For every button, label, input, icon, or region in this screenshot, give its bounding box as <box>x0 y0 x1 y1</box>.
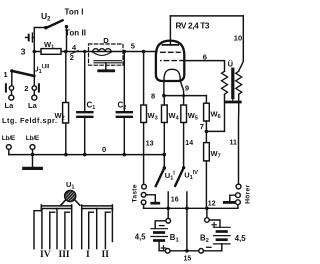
transformer core <box>226 69 241 102</box>
battery B1 plus terminal <box>159 241 170 254</box>
svg-text:8: 8 <box>151 92 155 101</box>
wire: C2 branch upper <box>123 52 125 112</box>
coil block right bar <box>82 205 113 211</box>
terminal La right <box>28 90 38 110</box>
node 15 <box>184 249 192 263</box>
battery B2 plates <box>214 227 231 244</box>
svg-text:12: 12 <box>208 201 216 208</box>
transformer U secondary winding <box>236 71 242 94</box>
coil block left bar <box>41 205 71 211</box>
node 4/2 <box>64 43 78 62</box>
tube grid 1 (dashed) <box>161 51 180 53</box>
node C1/bus <box>83 153 87 157</box>
wire: main grid line node3 to tube <box>34 51 157 53</box>
svg-text:Ü: Ü <box>228 60 233 69</box>
node bus/15 <box>185 207 189 211</box>
svg-text:IV: IV <box>40 250 51 260</box>
resistor W5 <box>181 105 198 123</box>
svg-text:I: I <box>86 250 90 260</box>
wire: contact 16 down to bus and battery B1 minus <box>168 192 178 219</box>
wire: primary bottom to node 7 <box>206 94 224 131</box>
resistor W2 <box>55 103 69 124</box>
tube RV 2,4 T3 envelope <box>156 41 184 81</box>
svg-text:Ltg. Feldf.spr.: Ltg. Feldf.spr. <box>2 116 57 125</box>
node W2/bus <box>64 153 68 157</box>
svg-text:Lb/E: Lb/E <box>26 135 40 142</box>
node 12 <box>205 201 216 211</box>
svg-text:2: 2 <box>24 84 28 93</box>
svg-text:16: 16 <box>171 196 179 203</box>
zero bus 0 <box>9 154 165 156</box>
switch U1-IV <box>175 166 185 186</box>
svg-text:RV 2,4 T3: RV 2,4 T3 <box>176 20 210 30</box>
wire: W5 down to switch U1-IV pivot, terminal 14 <box>184 123 194 168</box>
switch U1-I <box>156 166 166 186</box>
svg-text:11: 11 <box>230 139 238 146</box>
svg-text:Ton I: Ton I <box>65 8 84 17</box>
jack contact 1 <box>6 71 14 92</box>
svg-text:13: 13 <box>146 141 154 148</box>
tube lead 9 to W5 <box>180 81 189 96</box>
jack contact 2 <box>24 76 39 93</box>
Taste jack contact bottom <box>141 200 146 208</box>
wire: C1 down to zero bus <box>84 118 86 155</box>
wire: C1 branch upper <box>84 52 86 112</box>
coil tap wires section III <box>57 209 72 249</box>
capacitor C1 <box>77 101 95 117</box>
resistor W7 <box>204 131 221 161</box>
coil tap wires section II <box>105 209 112 249</box>
capacitor C2 <box>117 101 132 117</box>
node 3 <box>33 50 37 54</box>
svg-text:10: 10 <box>234 34 242 43</box>
coil tap wires section IV <box>34 209 55 249</box>
resistor W6 <box>204 96 221 121</box>
coil D winding <box>93 49 112 56</box>
svg-text:Ton II: Ton II <box>65 29 86 38</box>
wire: C2 down to zero bus <box>123 118 125 155</box>
wire: battery mid link <box>170 250 199 252</box>
terminal Lb/E left <box>2 135 16 155</box>
svg-text:9: 9 <box>185 84 189 93</box>
wire: node 4/2 down to W2 <box>65 52 67 103</box>
resistor W3 <box>141 105 158 123</box>
battery B1 plates <box>151 229 168 241</box>
svg-text:5: 5 <box>131 42 135 51</box>
junction at W5 top <box>182 94 185 97</box>
svg-text:Taste: Taste <box>131 184 138 202</box>
node bus/B1 minus <box>166 207 170 211</box>
wire: node3 up and to switch U2 <box>34 28 45 52</box>
resistor W4 <box>162 105 180 123</box>
wire: grid2 to output transformer, node 6 <box>184 52 224 71</box>
node C2/bus <box>123 153 127 157</box>
svg-text:Hörer: Hörer <box>245 184 252 203</box>
tube anode plate <box>163 44 179 46</box>
svg-text:La: La <box>5 101 15 110</box>
svg-text:1: 1 <box>4 70 8 79</box>
svg-text:Lb/E: Lb/E <box>2 135 16 142</box>
ground at zero bus <box>24 153 42 169</box>
wire: tube lead cathode to node 8 <box>163 81 165 96</box>
wire: contact down to bus and battery junction 15 <box>186 192 188 251</box>
Taste jack contact top <box>142 184 147 189</box>
wire: anode top run to the right <box>170 15 243 17</box>
coil tap wires section I <box>82 209 97 249</box>
wire: W7 down to node 12 <box>205 161 207 208</box>
wire: Ton II contact down to node 4/2 <box>66 27 68 52</box>
capacitor (antenna trimmer) on left wire <box>26 33 35 42</box>
wire: W4 down through zero bus to switch U1-I pivot <box>163 123 165 169</box>
wire: W5 top <box>183 96 185 105</box>
svg-text:II: II <box>102 250 110 260</box>
node W3 top <box>142 50 146 54</box>
coil D core <box>94 61 121 63</box>
wire: W4 top from node 8 <box>163 96 165 105</box>
transformer U primary winding <box>222 71 228 94</box>
wire: W2 down to zero bus <box>65 123 67 155</box>
battery B2 minus terminal <box>199 244 222 253</box>
transformer D dashed box <box>89 36 124 65</box>
switch U1 I,III <box>10 52 34 77</box>
svg-text:15: 15 <box>184 256 192 263</box>
tube anode lead <box>169 16 171 45</box>
svg-text:0: 0 <box>102 145 106 154</box>
node bus end / W4 wire <box>163 153 167 157</box>
svg-text:La: La <box>28 101 38 110</box>
wire: right vertical down to output transformer <box>239 16 244 71</box>
wire: W3 branch upper <box>143 52 145 106</box>
svg-text:3: 3 <box>21 47 26 57</box>
battery B2 plus terminal <box>205 208 220 227</box>
svg-text:III: III <box>59 250 70 260</box>
svg-text:D: D <box>103 36 109 45</box>
svg-text:4,5: 4,5 <box>235 234 247 243</box>
svg-text:6: 6 <box>203 52 207 61</box>
tube grid 2 (dashed) <box>161 60 185 62</box>
svg-text:4,5: 4,5 <box>135 233 147 242</box>
svg-text:2: 2 <box>70 53 74 62</box>
node 8 <box>151 92 166 101</box>
svg-text:14: 14 <box>185 140 193 147</box>
Taste jack contact middle with ground <box>141 193 159 204</box>
node 5 <box>123 42 135 54</box>
wire: node 8 horizontal to W6 <box>164 95 207 97</box>
lower bus <box>144 205 238 209</box>
node 7 <box>200 121 208 133</box>
tube filament <box>164 69 180 81</box>
wire: secondary down to Hoerer, terminal 11 <box>230 94 239 184</box>
rotary switch U1 wiper disc <box>60 180 80 206</box>
Hoerer jack contact bottom <box>236 200 241 205</box>
terminal Lb/E right <box>26 135 40 155</box>
resistor W1 <box>41 40 61 54</box>
svg-text:7: 7 <box>200 122 204 131</box>
battery B1 minus terminal <box>155 219 170 229</box>
wire: W3 down to Taste jack, terminal 13 <box>144 123 154 185</box>
ground below D <box>99 63 114 71</box>
Hoerer jack contact top <box>236 184 241 189</box>
node C1 top <box>83 50 86 53</box>
Hoerer jack contact middle with ground <box>224 193 240 203</box>
terminal La left <box>5 90 15 110</box>
switch U2 <box>44 20 68 29</box>
